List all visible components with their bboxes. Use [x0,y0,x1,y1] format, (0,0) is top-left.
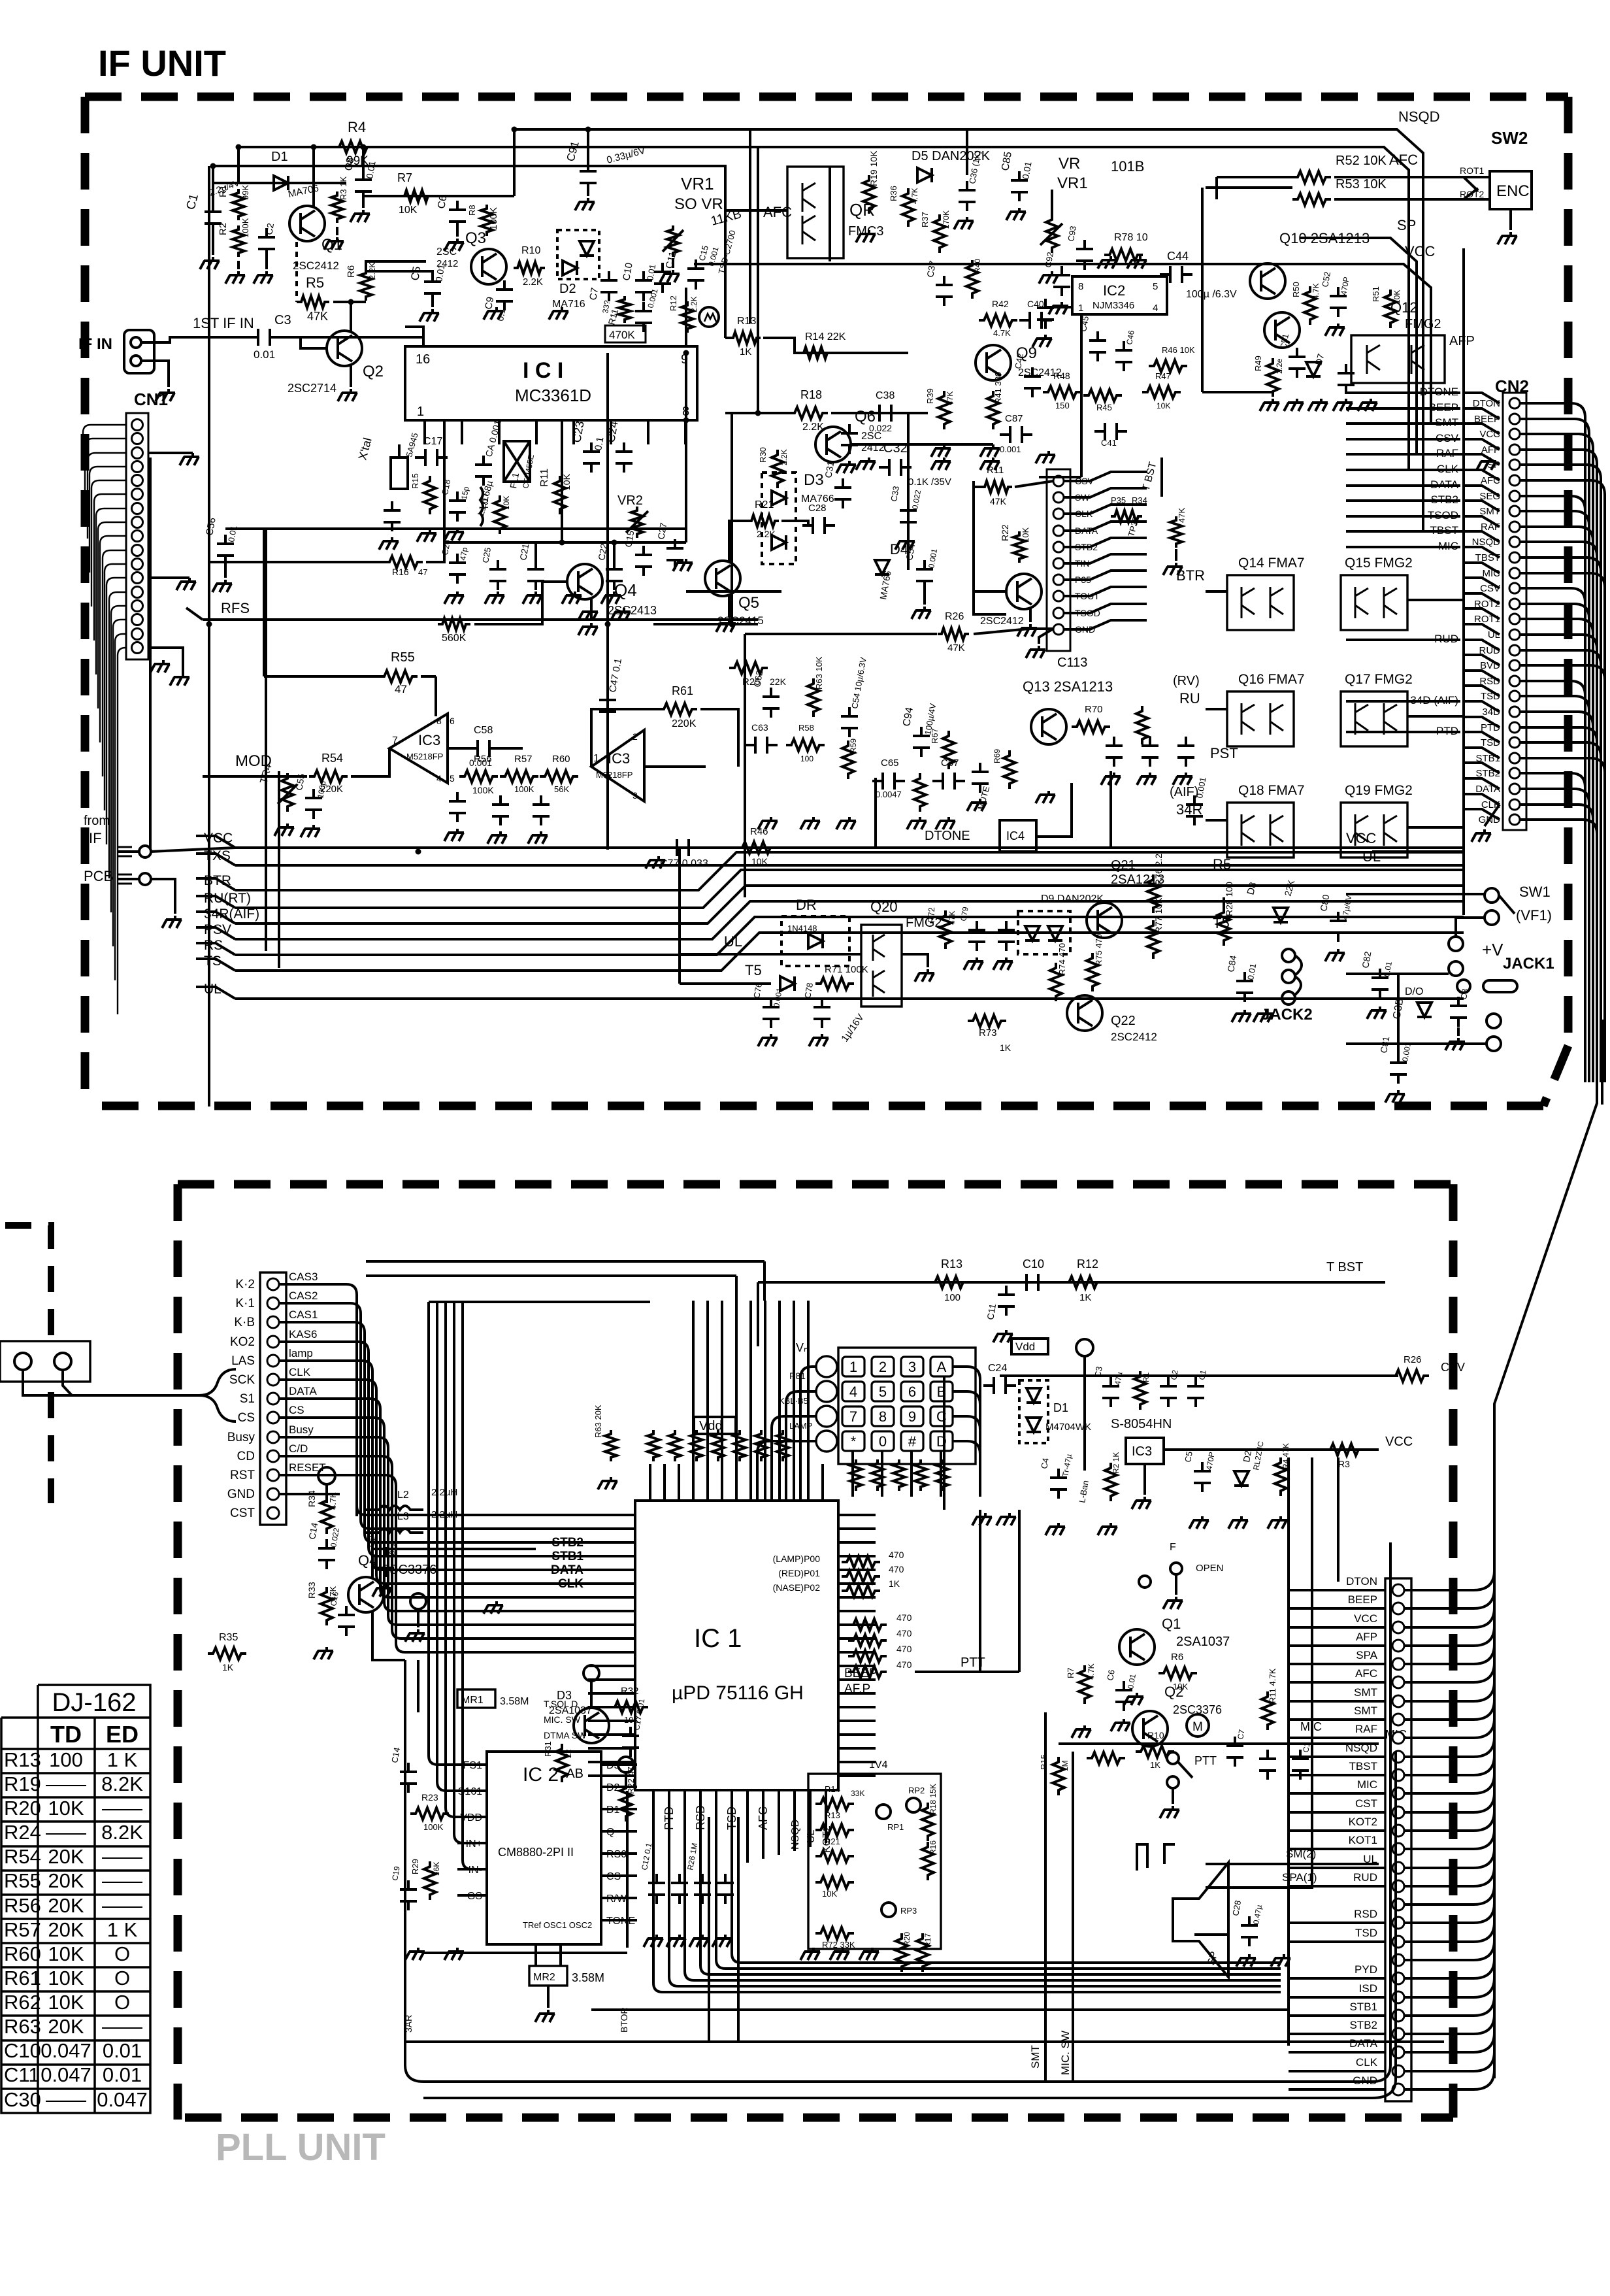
wire IC1 top pin [778,1471,781,1501]
wire line C [213,165,727,167]
svg-text:R56: R56 [4,1894,41,1917]
ground C54c [923,584,926,605]
svg-text:R3 1K: R3 1K [338,176,348,200]
svg-text:99K: 99K [240,185,250,200]
svg-text:R20: R20 [4,1797,41,1820]
wire AFC drop right [1409,196,1464,470]
capacitor C85 [1011,171,1028,201]
ground [646,856,665,869]
wire CN202 left feed [1289,1829,1385,1832]
resistor R55 feedback [379,671,418,682]
capacitor C47 [599,691,616,721]
svg-text:PST: PST [1210,745,1238,761]
resistor R54 [309,771,348,782]
svg-text:L2: L2 [397,1489,409,1501]
svg-text:C38: C38 [876,390,895,401]
wire CN1 ribbon [103,550,126,776]
wire array row2 [1206,708,1227,710]
ground R3 [336,227,338,235]
resistor R75 [1087,953,1098,991]
svg-text:VR1: VR1 [1057,175,1088,192]
wire IC1 right pin [838,1761,876,1763]
svg-text:R13: R13 [4,1748,41,1771]
connector CN2 pin PTD [1509,722,1520,733]
trimmer RP2 [906,1798,921,1812]
ground [484,1601,503,1614]
IF unit dashed border top [85,93,1568,101]
capacitor C14b [400,1763,417,1793]
svg-text:D3: D3 [804,471,824,489]
svg-text:56K: 56K [432,1862,441,1876]
transistor Q2 [327,331,362,366]
capacitor C28b [1241,1916,1258,1946]
wire CN3 lead [1064,620,1147,629]
wire bus 2985 [423,1952,627,1954]
wire keypad row [772,1416,816,1501]
wire CN2 right lead [1520,557,1601,1082]
wire IC2 right pin [601,1897,637,1899]
wire CN201 right lead [279,1284,357,1516]
wire [1059,1742,1379,1745]
capacitor C51 [1289,348,1306,378]
svg-text:Q2: Q2 [1164,1684,1183,1700]
ground [1333,399,1353,411]
svg-text:STB2: STB2 [1349,2019,1377,2031]
wire CN201 right lead [279,1380,376,1516]
wire 830 drop C21 [534,542,537,563]
wire CN202 left feed [1289,1922,1385,1924]
ground [931,458,951,470]
connector CN202 pin ISD [1392,1991,1404,2003]
ground C56 [224,559,227,578]
wire IC2 feed [429,1302,487,1765]
connector CN2 pin AFC [1509,475,1520,486]
svg-text:R11: R11 [539,469,550,487]
wire IC1 right pin [838,1678,876,1681]
crystal X'tal [391,458,408,489]
svg-text:10K: 10K [48,1991,84,2014]
svg-text:CSV: CSV [1480,583,1500,594]
wire R26 [745,633,937,635]
ground [1026,646,1045,658]
resistor R4 [334,141,372,153]
capacitor C2c [1259,1750,1276,1780]
wire key row out [953,1441,980,1497]
svg-text:R33: R33 [306,1582,317,1599]
junction [729,622,735,627]
connector CN202 pin 17 [1392,1899,1404,1910]
wire IC1 left pin [588,1692,635,1695]
capacitor C15 [635,546,652,576]
svg-text:2SA1037: 2SA1037 [549,1705,592,1716]
wire [1080,314,1083,477]
svg-text:VR: VR [1059,155,1080,173]
capacitor C40 [1019,312,1052,329]
svg-text:4.7K: 4.7K [1087,1663,1096,1680]
wire CN202 left feed [1289,1718,1385,1721]
capacitor C87 [1000,426,1032,443]
svg-text:10K: 10K [48,1942,84,1965]
ground [964,957,983,970]
wire CN201 right lead [279,1303,361,1516]
ground [1036,791,1055,803]
transistor Q3 [471,249,506,284]
wire [1018,1510,1021,1672]
wire CN2 right lead [1520,604,1589,1082]
wire CN2 left lead [1464,794,1500,805]
wire AFC into QR [725,209,787,212]
wire CN202 right lead [1404,1700,1494,1720]
svg-text:100: 100 [49,1748,83,1771]
svg-text:R13: R13 [941,1257,962,1271]
wire CN202 right lead [1404,2014,1494,2034]
wire VCC topright [694,264,1464,424]
wire riser b [678,847,681,984]
svg-text:R23: R23 [421,1792,438,1803]
wire 1ST IF IN [141,337,251,342]
svg-text:0.047: 0.047 [41,2063,91,2086]
wire mod spine [149,458,152,850]
svg-text:R13: R13 [737,316,756,327]
wire IC1 riser [778,1301,781,1501]
svg-text:47K: 47K [990,496,1007,507]
svg-text:C65: C65 [881,757,899,769]
ground [1160,1806,1179,1818]
resistor R31 [556,1744,568,1782]
switch SW1 [1485,888,1499,903]
wire IC1 left pin [588,1610,635,1612]
wire CN2 right lead [1520,820,1597,1082]
wire IC2 left pin [457,1894,487,1897]
svg-text:5: 5 [879,1384,887,1400]
capacitor C54b [841,707,858,737]
svg-text:R16: R16 [928,1840,938,1855]
resistor R32 [610,1701,648,1713]
svg-text:R60: R60 [4,1942,41,1965]
svg-text:Busy: Busy [289,1423,314,1436]
wire CN1 ribbon [96,508,126,674]
key 9 [901,1406,923,1426]
svg-text:CM8880-2PI II: CM8880-2PI II [498,1846,574,1859]
svg-text:C6: C6 [1105,1669,1117,1682]
svg-text:R63 10K: R63 10K [814,656,824,690]
svg-text:Q22: Q22 [1111,1014,1136,1028]
ground [598,1477,617,1489]
svg-text:8.2K: 8.2K [101,1821,143,1844]
wire CN202 left rail [1287,1457,1290,2046]
svg-text:7: 7 [392,735,398,746]
svg-text:C9: C9 [483,296,496,310]
svg-text:5: 5 [1153,281,1158,292]
resistor R8 [481,205,493,236]
svg-text:2.2K: 2.2K [523,276,543,288]
wire key row out [953,1391,980,1497]
svg-text:CS: CS [289,1404,304,1416]
wire keypad row [757,1441,816,1501]
wire IC1 top pin [663,1471,666,1501]
svg-text:MA766: MA766 [801,493,834,505]
resistor R2 [233,225,244,257]
ground [954,217,974,229]
wire R54 to opamp [351,748,389,776]
svg-text:1K: 1K [1000,1042,1011,1053]
svg-text:MC3361D: MC3361D [515,386,591,405]
wire IC2 right pin [601,1763,637,1766]
wire IC1 right pin [838,1637,876,1640]
connector CN201 pin SCK [267,1374,279,1386]
wire CN2 left lead [1464,748,1500,758]
svg-text:O: O [114,1942,130,1965]
svg-text:A: A [937,1359,947,1375]
svg-text:PTT: PTT [1194,1754,1217,1767]
ground [1477,458,1496,470]
wire R6 bottom [351,301,366,303]
svg-text:2SA1037: 2SA1037 [1176,1635,1230,1649]
svg-text:Q20: Q20 [870,899,898,915]
key A [930,1357,953,1376]
wire IC1 bottom pin [647,420,649,444]
resistor RP R14 [815,1798,854,1810]
ground [419,309,439,322]
resistor R6b [1158,1667,1197,1679]
connector CN3 pin TIN [1053,558,1064,569]
IF unit dashed border bottom right corner [1543,1046,1568,1106]
wire mic bus [1059,1742,1379,1745]
svg-text:4.7K: 4.7K [993,328,1011,338]
svg-text:IC 2: IC 2 [523,1764,559,1786]
connector CN201 pin CD [267,1450,279,1462]
wire IF IN ground [141,361,169,387]
ground [915,969,934,982]
capacitor C15t [687,259,704,290]
wire smt vert [1044,1712,1047,2082]
wire IC2 left pin [457,1842,487,1844]
ground [535,2010,555,2022]
wire lower VCC [1372,850,1464,853]
svg-text:R2: R2 [218,223,229,235]
ground [993,957,1013,970]
wire CN2 right lead [1520,789,1589,1082]
svg-text:VCC: VCC [1354,1612,1377,1625]
ground [444,591,464,604]
wire IC1 right pin [838,1665,876,1667]
resistor pull 3 [712,1430,724,1461]
component IC4 [1000,820,1036,852]
connector from IF PCB pin1 [139,846,151,857]
svg-text:O: O [114,1991,130,2014]
svg-text:470K: 470K [609,329,635,341]
wire CN202 right lead [1404,1755,1494,1775]
wire CN2 outer feed [1346,484,1460,487]
ground [996,1513,1016,1525]
wire [737,1817,740,2042]
svg-text:1: 1 [593,753,599,764]
svg-text:C17: C17 [423,436,442,447]
svg-text:DR: DR [796,897,817,913]
wire IC2 feed [463,1302,487,1869]
svg-text:FMG2: FMG2 [906,916,942,930]
svg-text:OPEN: OPEN [1196,1563,1224,1574]
capacitor C91 [580,162,597,192]
connector CN201 pin S1 [267,1393,279,1405]
wire CN202 right lead [1404,1848,1494,1868]
svg-text:D1: D1 [271,150,288,164]
svg-text:100: 100 [800,754,813,763]
capacitor C37 [936,276,953,306]
crystal MR1 [457,1689,495,1708]
svg-text:*: * [851,1433,857,1450]
svg-text:AFP: AFP [1449,334,1475,348]
svg-text:R58: R58 [798,723,814,733]
svg-text:1: 1 [1078,303,1083,314]
wire CN202 right lead [1404,1682,1494,1701]
wire CN202 right lead [1404,1959,1494,1978]
svg-text:0.001: 0.001 [1000,444,1021,454]
svg-text:0.01: 0.01 [103,2063,142,2086]
svg-text:2SC2412: 2SC2412 [980,616,1024,627]
wire CN201 right lead [279,1399,380,1516]
connector CN2 pin NSQD [1509,537,1520,547]
transistor Q10 [1250,263,1285,299]
resistor R15 [424,476,436,514]
ground [301,825,320,837]
capacitor C76 [763,998,780,1028]
wire IC1 top pin [749,1471,752,1501]
resistor R10b [1136,1746,1174,1757]
capacitor C24b [616,442,632,473]
svg-text:P81: P81 [789,1371,806,1381]
svg-text:1M: 1M [1060,1760,1070,1771]
svg-text:IF IN: IF IN [78,335,112,353]
wire IC1 top pin [678,1471,680,1501]
wire CN202 left feed [1289,1792,1385,1795]
wire [757,147,759,413]
crystal MR2 [529,1966,567,1986]
wire NSQD drop right [1423,171,1464,531]
capacitor C54c [916,560,933,590]
svg-text:C3: C3 [1458,988,1470,1001]
wire CN201 feed [357,1506,588,1516]
diode D9 dashed box [1018,911,1070,954]
wire bus VCC [235,846,1464,849]
svg-text:DTON: DTON [1346,1575,1377,1588]
wire AFC R4 line [238,147,1409,196]
wire CN201 gnd lead [279,1493,340,1495]
wire CN2 outer feed [1346,438,1460,441]
wire CN2 left lead [1464,593,1500,604]
resistor R45 [1083,390,1122,401]
capacitor C65 [872,773,905,790]
svg-text:TBST: TBST [1349,1760,1377,1772]
wire IC1 bottom pin [732,1790,1281,1963]
IC U2 NJM3346 [1072,276,1167,314]
ground [1325,949,1345,961]
ground [758,817,778,829]
resistor R58 [786,739,825,751]
wire CN2 right lead [1520,712,1593,1082]
svg-text:470: 470 [896,1612,912,1623]
power node R1 [1076,1339,1093,1356]
wire [731,413,733,624]
wire arrays to CN2 RUD [1407,599,1464,601]
wire CN3 lead [1064,488,1147,497]
junction [210,163,216,169]
wire CN1 ribbon [83,425,126,471]
svg-text:4.7K: 4.7K [910,188,919,204]
resistor R22c [620,1783,632,1822]
connector CN202 pin GND [1392,2084,1404,2095]
connector CN202 body [1385,1578,1411,2101]
svg-text:RSD: RSD [694,1805,707,1830]
wire CN2 right lead [1520,727,1597,1082]
wire CN3 lead [1064,538,1147,547]
key # [901,1431,923,1451]
wire CN201 right lead [279,1361,372,1516]
resistor R40b [842,1585,880,1597]
wire F gnd [1175,1574,1177,1595]
wire bus TS [235,933,1464,971]
diode D1c [1027,1418,1041,1432]
svg-text:R34: R34 [1132,495,1147,505]
svg-text:(AIF): (AIF) [1170,785,1198,799]
wire CN202 left feed [1289,1774,1385,1776]
capacitor C1 [205,203,222,233]
wire key col down [881,1451,883,1497]
capacitor C33 [900,501,917,531]
op-amp U3a M5218FP [389,714,448,783]
wire IC1 bottom pin [685,1790,1281,1980]
svg-text:C/D: C/D [289,1442,308,1455]
wire IC1 top pin [807,1471,810,1501]
wire node D1 row [213,182,346,184]
svg-text:MIC: MIC [1357,1778,1377,1791]
svg-text:GND: GND [227,1488,255,1501]
ground [274,824,294,836]
svg-text:47K: 47K [945,391,955,405]
resistor R16 [384,556,423,568]
svg-text:2.2e: 2.2e [1275,358,1284,374]
wire CN201 feed [369,1516,588,1556]
svg-text:D/O: D/O [1405,986,1423,997]
wire IC2 left pin [457,1789,487,1792]
svg-text:R13: R13 [825,1810,840,1820]
connector CN201 body [260,1273,286,1525]
wire CN1 ribbon [115,634,126,980]
connector CN2 pin GND [1509,814,1520,825]
wire sm2 [1206,1863,1379,1865]
key 1 [842,1357,864,1376]
ground [980,444,1000,457]
microphone M [1187,1714,1209,1737]
resistor R13c [930,1276,968,1288]
connector CN201 pin K·B [267,1316,279,1328]
svg-text:+V: +V [1482,940,1503,959]
svg-text:4: 4 [1153,303,1158,314]
ground [993,1330,1013,1342]
svg-text:CS: CS [238,1411,255,1425]
wire CN2 left lead [1464,563,1500,573]
svg-text:1K: 1K [1079,1292,1091,1303]
svg-text:10K: 10K [822,1889,837,1899]
capacitor C17b [622,1727,639,1757]
svg-text:R37: R37 [920,212,930,227]
svg-text:LAS: LAS [231,1354,255,1368]
svg-text:C113: C113 [1057,656,1087,670]
wire IC1 left pin [588,1623,635,1626]
diode D10 [1417,1003,1432,1017]
svg-text:ROT1: ROT1 [1460,165,1485,176]
svg-text:C24: C24 [988,1363,1007,1374]
